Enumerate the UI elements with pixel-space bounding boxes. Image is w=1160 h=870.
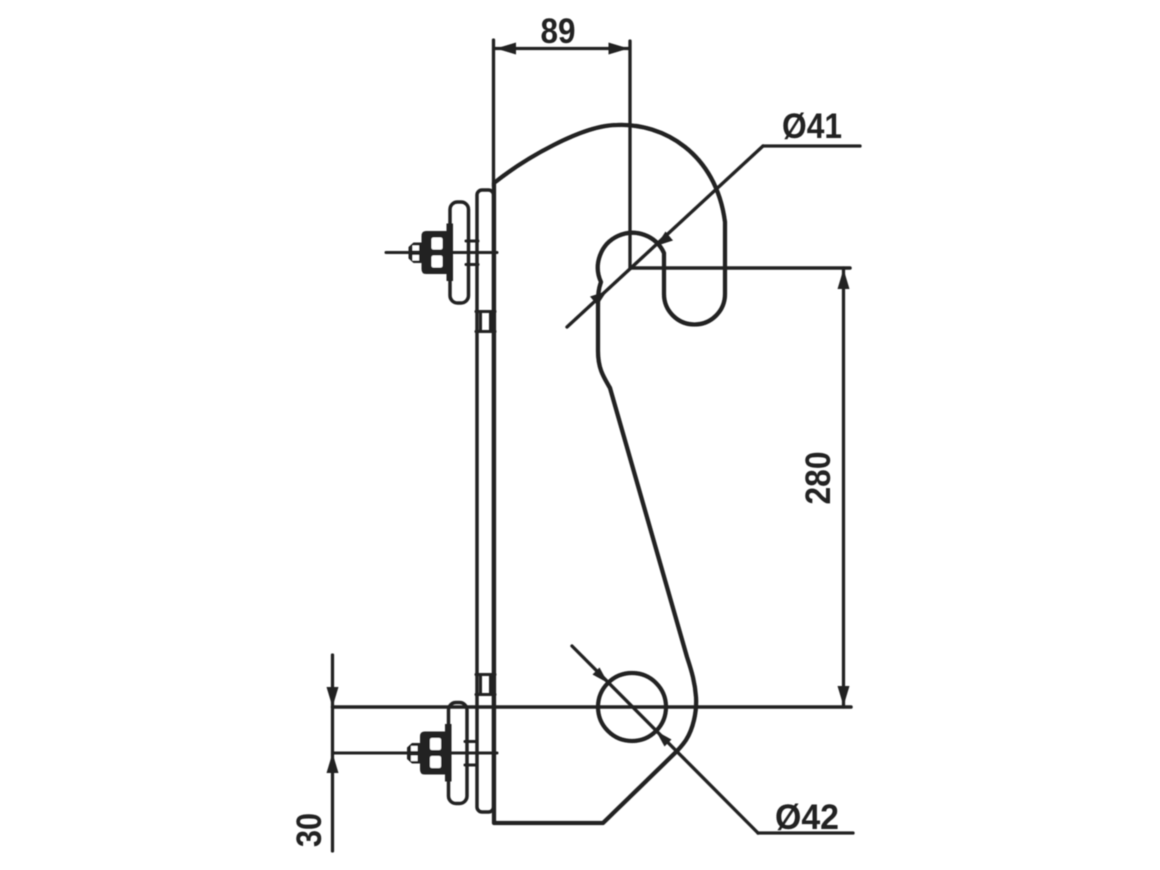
bolt lower [333,703,497,804]
arrowhead D42 lower [656,731,672,747]
leader D41 [567,146,860,327]
flange washer [447,224,454,282]
strip joint upper [476,312,495,332]
arrow bottom of 280 [838,686,850,706]
stud shank ticks [465,740,477,743]
extension line right [628,41,631,268]
stud shank ticks [466,240,478,243]
hole circle D42 [598,673,666,741]
bracket outline [494,125,725,823]
nut body filled [420,732,447,775]
extension line left [492,40,495,186]
svg-text:Ø42: Ø42 [775,798,839,837]
leader D42 [572,646,853,833]
svg-text:280: 280 [799,452,838,505]
arrowhead D41 lower [590,291,607,306]
flange washer [445,724,452,782]
bolt tip filled [409,243,422,264]
arrow down to 707 [327,687,339,707]
arrow top of 280 [838,269,850,289]
arrowhead D42 upper [593,668,609,684]
arrow up to 753 [327,753,339,773]
centerline D41 horizontal [631,266,850,270]
washer capsule [449,703,468,804]
centerline [386,251,497,254]
svg-text:Ø41: Ø41 [782,107,842,146]
centerline [333,752,497,755]
dim 89 [494,40,631,268]
bolt tip filled [407,743,420,764]
arrowhead D41 upper [656,232,673,247]
dim 30 vertical [331,655,334,851]
arrow right of 89 [609,43,629,55]
bolt upper [386,202,497,303]
dim 280 vertical [842,268,845,707]
centerline D42 horizontal [333,705,852,709]
dimension line [495,47,629,50]
svg-text:89: 89 [541,12,576,51]
nut body filled [422,231,449,274]
backing strip [477,190,494,812]
arrow left of 89 [496,43,516,55]
strip joint lower [476,675,495,695]
svg-text:30: 30 [290,813,329,847]
washer capsule [450,202,469,303]
